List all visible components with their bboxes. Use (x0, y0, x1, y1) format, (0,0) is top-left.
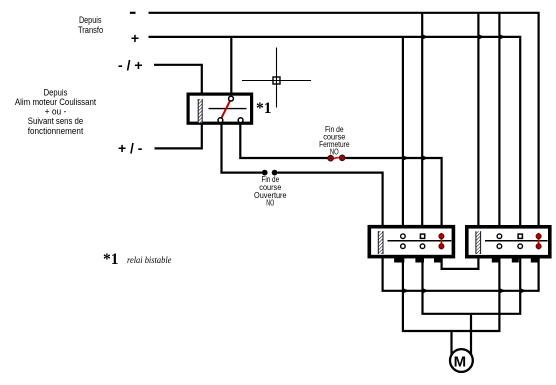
svg-text:Alim moteur Coulissant: Alim moteur Coulissant (15, 97, 97, 107)
svg-text:Depuis: Depuis (79, 15, 102, 25)
svg-text:NO: NO (330, 147, 339, 156)
svg-text:Transfo: Transfo (78, 25, 103, 35)
svg-text:+: + (131, 30, 139, 46)
svg-text:relai bistable: relai bistable (127, 256, 171, 266)
svg-text:Suivant sens de: Suivant sens de (28, 116, 83, 126)
svg-text:+ ou -: + ou - (45, 107, 67, 117)
svg-text:Depuis: Depuis (44, 87, 68, 97)
svg-text:*1: *1 (256, 100, 272, 117)
svg-text:fonctionnement: fonctionnement (28, 126, 84, 136)
svg-text:*1: *1 (103, 251, 119, 268)
svg-text:NO: NO (266, 199, 274, 208)
svg-text:M: M (454, 353, 467, 370)
svg-text:- / +: - / + (118, 57, 143, 73)
svg-text:+ / -: + / - (118, 140, 143, 156)
